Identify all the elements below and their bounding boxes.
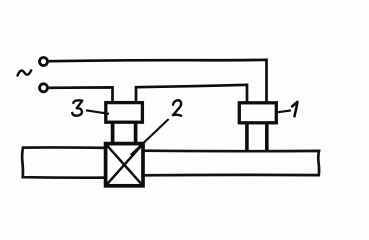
label 3 (72, 100, 82, 115)
leader line for label 3 (86, 110, 109, 114)
label 1 (292, 102, 297, 116)
device box 3 (106, 103, 143, 123)
leg: box 1 to pipe, right (265, 123, 269, 152)
label 2 (173, 100, 181, 116)
leader line for label 1 (277, 110, 291, 112)
device box 1 (239, 103, 276, 123)
leader line for label 2 (131, 119, 169, 155)
wire: bottom terminal to box 3 left leg (49, 87, 113, 102)
wire: box 3 right leg up and across to box 1 left leg (136, 85, 247, 103)
pipe (workpiece) left segment (22, 147, 106, 177)
terminal (bottom circle) (40, 84, 48, 92)
leg: box 1 to pipe, left (245, 123, 249, 152)
leg: box 3 to crossed box, left (111, 122, 115, 145)
crossed box diagonal TL-BR (107, 145, 142, 185)
leg: box 3 to crossed box, right (134, 122, 138, 145)
terminal (top circle) (40, 58, 48, 66)
wire: top terminal to right then down to box 1 (49, 60, 267, 103)
AC source tilde (18, 70, 32, 75)
crossed box (detector 2) (106, 144, 143, 186)
crossed box diagonal TR-BL (107, 145, 142, 185)
pipe (workpiece) right segment (142, 151, 319, 176)
